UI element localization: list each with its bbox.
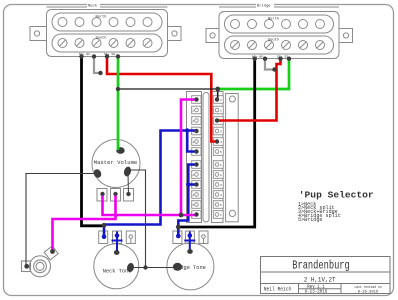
- left mounting ear: [206, 29, 219, 43]
- junction blue row9: [186, 182, 190, 186]
- svg-text:South: South: [268, 37, 279, 42]
- svg-text:3: 3: [220, 184, 222, 187]
- svg-text:3: 3: [220, 131, 222, 134]
- lug 3: [124, 189, 134, 202]
- bridge pickup P2: [206, 7, 353, 59]
- bridge label line: [219, 6, 339, 8]
- junction blue row4: [185, 128, 189, 132]
- wire: blue jumper rows1-3 bottom group to edge tone: [178, 165, 196, 237]
- pickup body: [219, 12, 339, 59]
- junction green-bus: [116, 87, 120, 91]
- 5-way selector switch U1: [187, 92, 239, 223]
- junction blue black edge tone: [176, 225, 181, 230]
- wire: magenta volume lug2 to jack tip: [53, 196, 116, 252]
- svg-text:South: South: [95, 35, 106, 40]
- svg-text:Last revised on: Last revised on: [355, 285, 382, 290]
- wire: magenta volume lug1 to switch row12: [103, 196, 197, 216]
- svg-text:Bridge: Bridge: [257, 4, 271, 9]
- neck label line: [47, 6, 168, 8]
- svg-text:4: 4: [220, 194, 222, 197]
- wire: tone casing link: [131, 267, 177, 269]
- lug 1: [99, 231, 108, 244]
- junction gray-red neck: [98, 71, 102, 75]
- wire: neck red SF+ to switch right row5: [107, 57, 217, 142]
- pickup terminal pins neck: [79, 54, 120, 75]
- switch right column pin labels: [220, 99, 222, 217]
- lug 1: [97, 189, 107, 202]
- lug 3: [126, 231, 135, 244]
- svg-text:2: 2: [220, 174, 222, 177]
- tone pot lug pins: [102, 233, 192, 239]
- output jack J1: [22, 246, 59, 277]
- switch connected pins right: [215, 97, 219, 143]
- wire: neck black hot NS+ down and along bottom: [82, 57, 105, 226]
- edge tone pot VR3: [167, 231, 214, 290]
- svg-text:'Pup Selector: 'Pup Selector: [299, 190, 374, 201]
- junction magenta riser: [179, 213, 184, 218]
- north coil: [52, 13, 162, 31]
- junction gray-red bridge: [272, 67, 276, 71]
- neck pickup P1: [30, 7, 181, 57]
- svg-text:C: C: [220, 99, 222, 102]
- right wafer strip: [212, 92, 224, 223]
- wire: bridge green SS- to bus: [218, 59, 289, 89]
- lug 2: [185, 231, 194, 244]
- switch terminals left column: [192, 96, 201, 219]
- switch connected pins left: [194, 97, 198, 216]
- sleeve tab: [22, 261, 31, 272]
- master volume pot VR1: [92, 140, 140, 202]
- lug 3: [199, 231, 208, 244]
- volume casing solder blobs: [92, 147, 132, 179]
- svg-text:Rev.1.1: Rev.1.1: [307, 284, 325, 290]
- lug 2: [113, 231, 122, 244]
- title block: [261, 257, 391, 294]
- switch terminals right column: [213, 96, 223, 219]
- left mounting ear: [30, 27, 47, 41]
- tip tab: [44, 246, 58, 260]
- wire: blue branch to row6: [187, 131, 197, 152]
- svg-text:Master Volume: Master Volume: [94, 159, 138, 166]
- svg-text:C: C: [220, 214, 222, 217]
- right mounting ear: [339, 29, 353, 43]
- wire: volume casing to tone casings: [131, 170, 146, 268]
- wire: volume casing to jack sleeve: [26, 174, 98, 265]
- wire: bridge red SF+ to switch right row3: [217, 59, 281, 121]
- north coil: [225, 15, 334, 33]
- south coil: [52, 34, 162, 52]
- neck tone casing blob for cap: [114, 250, 120, 255]
- neck pickup labels: [87, 3, 107, 41]
- svg-text:North: North: [95, 14, 106, 19]
- south coil screw poles: [231, 41, 325, 50]
- svg-text:8-25-2016: 8-25-2016: [358, 290, 379, 294]
- svg-text:5: 5: [220, 204, 222, 207]
- svg-text:5>Bridge: 5>Bridge: [298, 217, 322, 223]
- junction tone casing link: [143, 265, 147, 269]
- svg-text:North: North: [268, 16, 279, 21]
- edge tone casing blob for cap: [187, 249, 193, 254]
- jack pins: [24, 264, 29, 269]
- wire: bridge gray NF-: [265, 59, 277, 70]
- bridge pickup labels: [256, 3, 279, 43]
- pickup terminal pins bridge: [253, 57, 292, 72]
- south coil screw poles: [58, 39, 152, 48]
- svg-text:Neck Tone: Neck Tone: [103, 268, 132, 274]
- edge tone casing blob left: [173, 263, 182, 271]
- wire: neck gray NF-: [94, 57, 102, 74]
- svg-text:Neil Reich: Neil Reich: [264, 287, 292, 293]
- lug 2: [111, 189, 121, 202]
- switch left column pin labels: [193, 99, 195, 217]
- svg-text:4: 4: [220, 141, 222, 144]
- north coil poles: [58, 18, 67, 27]
- svg-text:Brandenburg: Brandenburg: [292, 259, 350, 273]
- wire: neck tone cap lug2 to casing: [112, 232, 123, 252]
- volume lug3 ground to casing: [127, 174, 130, 196]
- wire: magenta riser to switch row1: [181, 100, 197, 216]
- mounting plate: [226, 94, 239, 222]
- neck tone pot VR2: [94, 231, 139, 289]
- wire: switch common drop: [217, 89, 219, 100]
- actuator slot: [203, 93, 209, 223]
- right mounting ear: [168, 27, 182, 41]
- wire: bridge black NS+ down and along bottom: [179, 59, 255, 227]
- svg-text:2 H,1V,2T: 2 H,1V,2T: [304, 277, 336, 284]
- junction bus-common: [215, 87, 220, 92]
- svg-text:Neck: Neck: [88, 4, 98, 9]
- junction blue black neck tone: [102, 223, 107, 228]
- svg-text:1: 1: [220, 164, 222, 167]
- svg-text:1: 1: [220, 110, 222, 113]
- lug 1: [173, 231, 182, 244]
- neck tone casing blob right: [126, 262, 135, 272]
- pickup body: [47, 10, 168, 57]
- north coil poles: [231, 20, 240, 29]
- wire: bare bus from green junction to switch common: [118, 88, 218, 90]
- wire: blue branch to row9: [188, 183, 196, 186]
- south coil: [225, 36, 334, 54]
- left wafer strip: [187, 92, 202, 223]
- volume lug pins: [100, 192, 130, 196]
- wire: neck green SS- to volume casing: [117, 57, 120, 151]
- wire: edge tone cap lug2 to casing: [184, 232, 195, 251]
- wire: blue jumper rows4-6 left column to neck tone: [104, 131, 197, 237]
- svg-text:8-23-2016: 8-23-2016: [305, 291, 328, 295]
- svg-text:5: 5: [220, 151, 222, 154]
